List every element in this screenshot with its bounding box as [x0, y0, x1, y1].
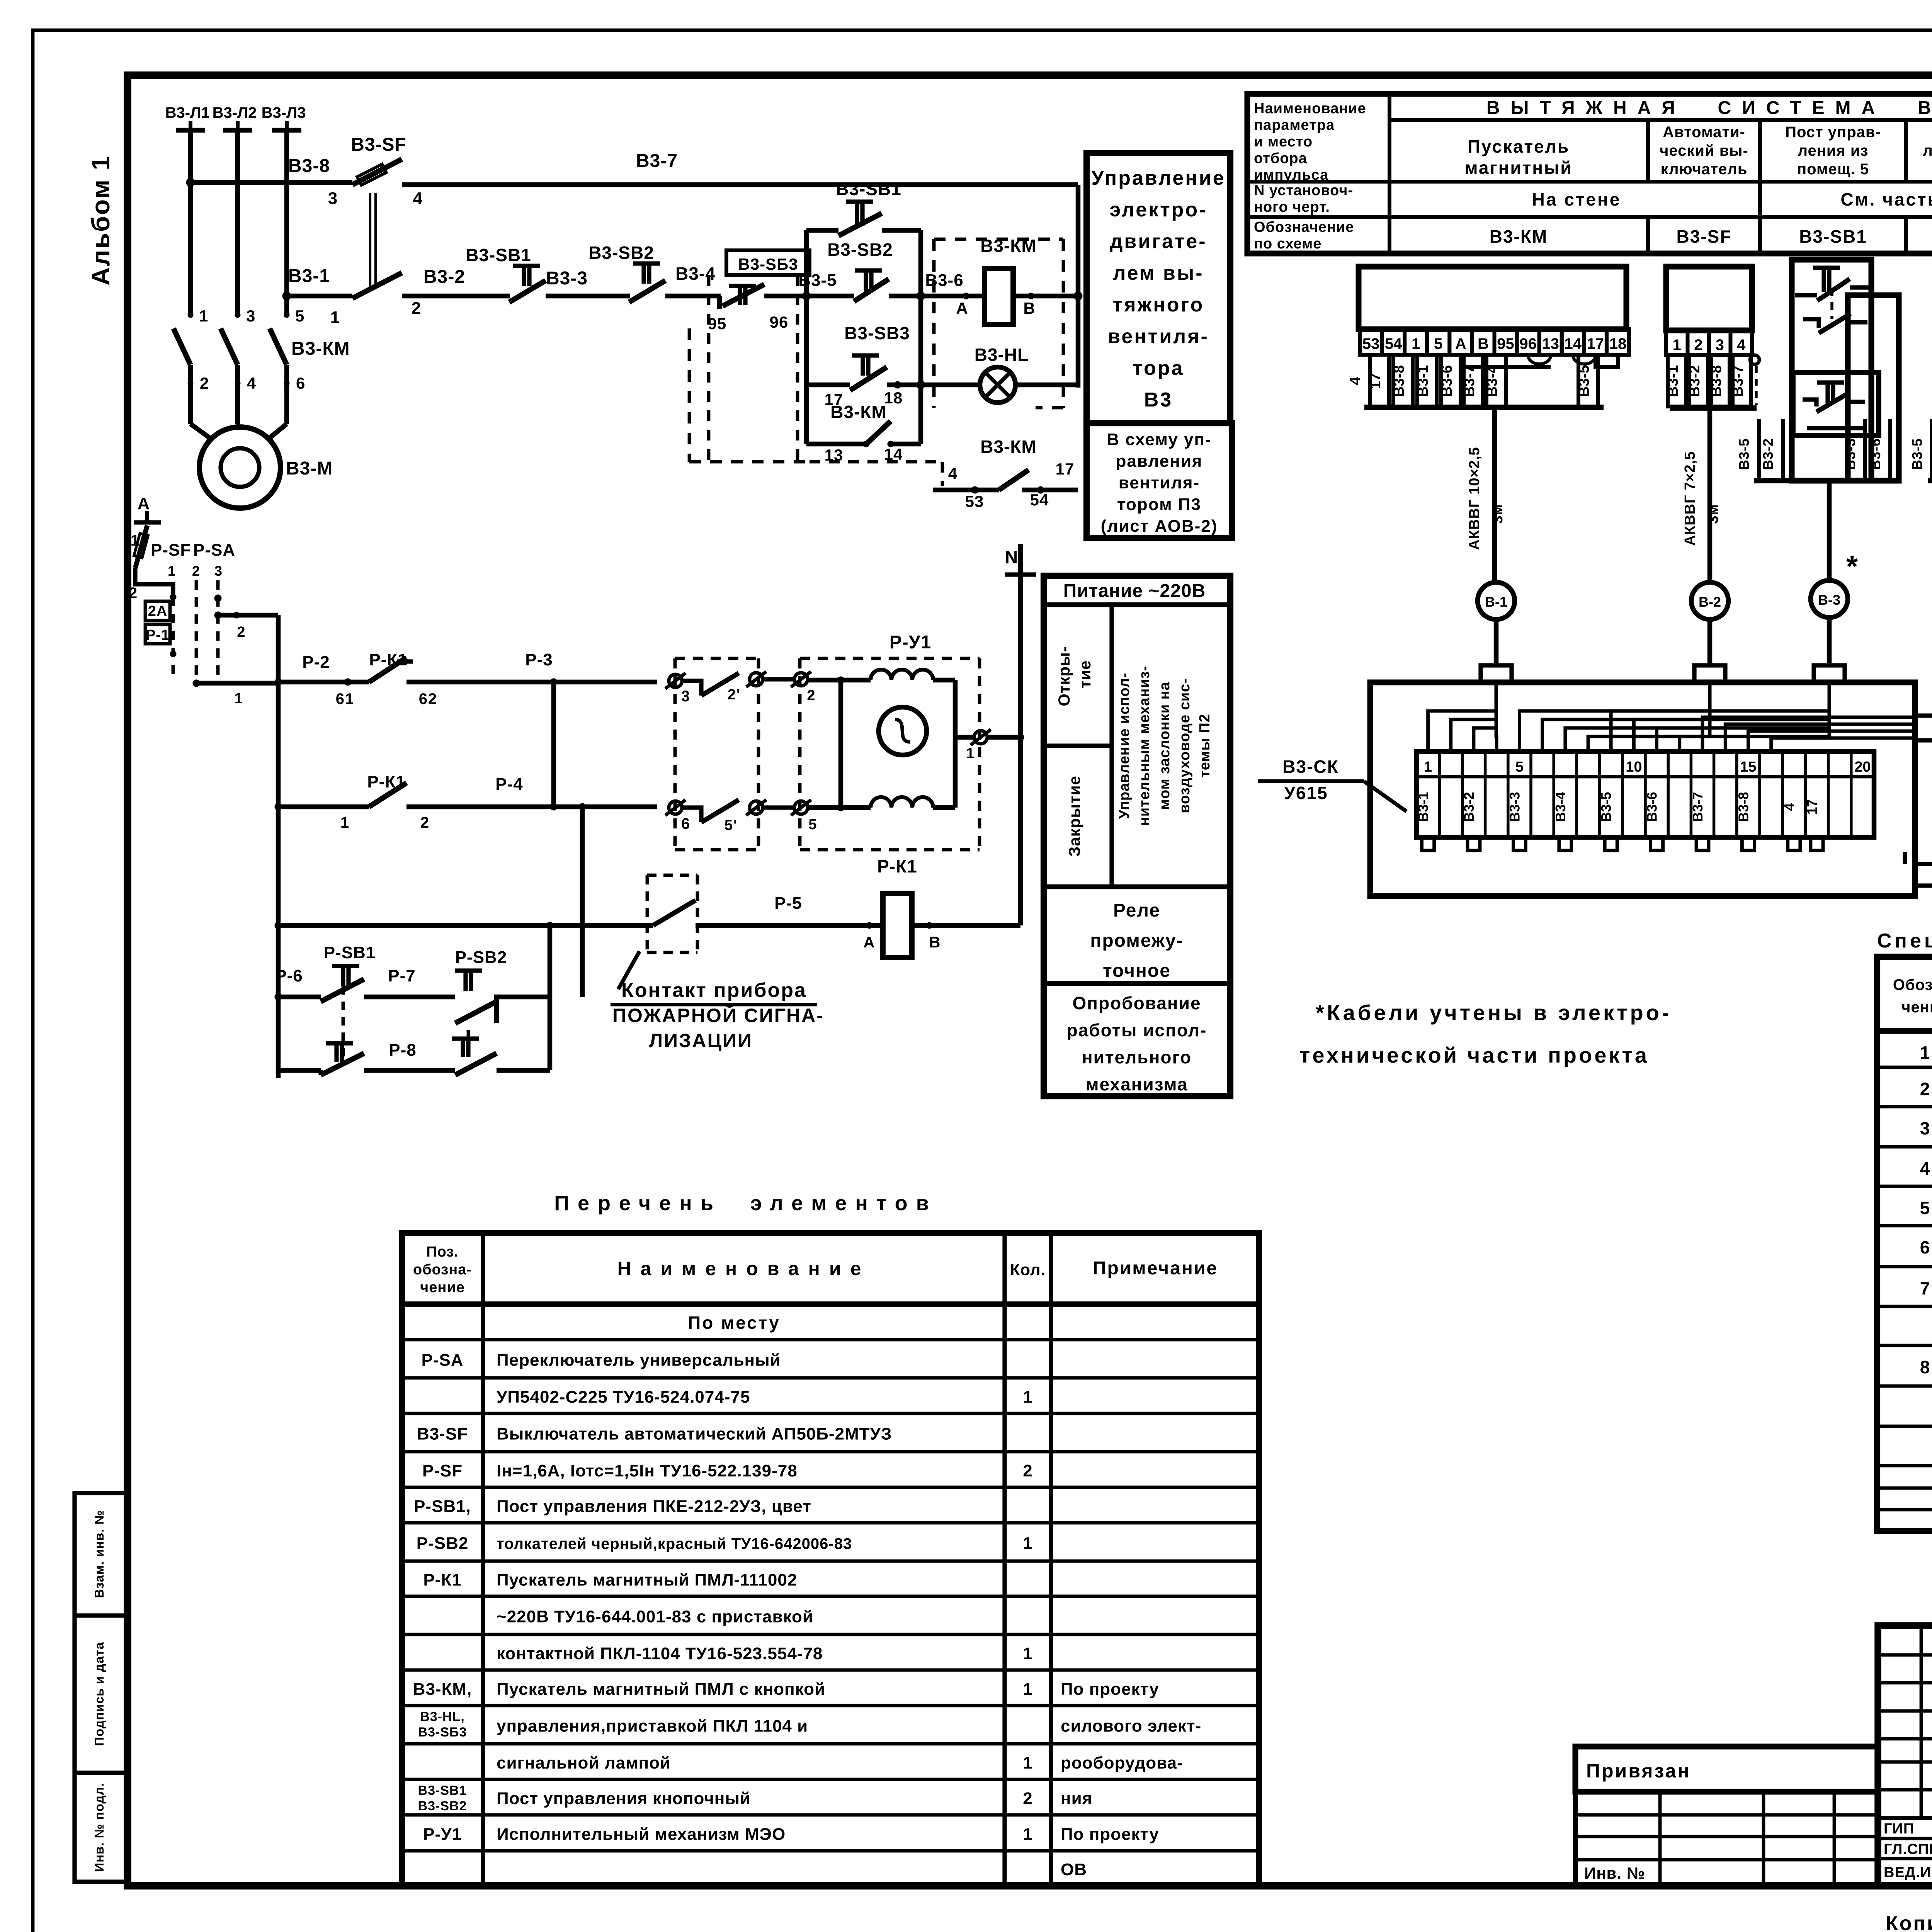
signature rows	[1878, 1816, 1932, 1820]
svg-text:В3-SF: В3-SF	[417, 1425, 468, 1444]
left stamp column	[75, 1493, 126, 1882]
svg-text:чение: чение	[1901, 999, 1932, 1016]
phase wire L1	[188, 130, 193, 315]
wire B3-1	[287, 294, 352, 299]
svg-text:1: 1	[1023, 1534, 1032, 1553]
svg-text:Обозна-: Обозна-	[1893, 976, 1932, 993]
svg-text:Р-SB1,: Р-SB1,	[414, 1497, 471, 1516]
svg-text:В3-8: В3-8	[1735, 792, 1751, 822]
V3-SK bottom outlet to P3-SK1	[1916, 864, 1932, 886]
svg-text:Поз.: Поз.	[426, 1244, 458, 1260]
svg-text:1: 1	[1023, 1680, 1032, 1699]
svg-text:1: 1	[1023, 1644, 1032, 1663]
svg-text:В3-SБ3: В3-SБ3	[418, 1725, 467, 1740]
dashed link of button posts	[688, 328, 691, 462]
left rail of start-stop group	[804, 230, 809, 444]
node junction left rail	[802, 292, 811, 300]
svg-text:4: 4	[1781, 803, 1797, 811]
winding bottom of P-U1	[808, 805, 871, 810]
V3-SK cable entries	[1481, 665, 1512, 682]
cable marker V-2	[1691, 582, 1728, 619]
svg-text:15: 15	[1740, 759, 1756, 775]
row P-5 fire circuit	[278, 923, 653, 928]
terminal 3	[669, 674, 682, 687]
svg-text:6: 6	[1920, 1237, 1930, 1257]
motor B3-M	[190, 424, 213, 440]
svg-text:5: 5	[1920, 1198, 1930, 1218]
vertical tie rows1-2	[551, 682, 556, 807]
inner right rail of start-stop group	[918, 230, 923, 444]
winding top of P-U1	[871, 670, 933, 680]
svg-text:У615: У615	[1284, 783, 1328, 803]
wire B3-7	[402, 182, 1078, 187]
svg-text:В3-6: В3-6	[1644, 792, 1660, 822]
svg-text:17: 17	[1804, 799, 1820, 815]
svg-text:технической части проекта: технической части проекта	[1299, 1043, 1649, 1067]
svg-text:силового элект-: силового элект-	[1061, 1717, 1201, 1736]
wire B3-8	[190, 180, 352, 185]
B3-KM stub wires with labels	[1370, 355, 1389, 406]
row close: wire	[278, 804, 369, 810]
svg-text:В3-2: В3-2	[1461, 792, 1477, 822]
svg-text:Перечень элементов: Перечень элементов	[554, 1192, 937, 1215]
svg-text:Примечание: Примечание	[1093, 1258, 1218, 1279]
svg-text:1: 1	[1424, 759, 1432, 775]
svg-text:ния: ния	[1061, 1789, 1092, 1808]
svg-text:В3-СК: В3-СК	[1282, 757, 1338, 777]
svg-text:4: 4	[1920, 1158, 1930, 1179]
svg-text:2: 2	[1023, 1461, 1032, 1480]
wire B3-3	[553, 294, 630, 299]
breaker B3-SF box	[1666, 267, 1752, 330]
terminal 1 of P-U1	[955, 735, 974, 740]
svg-text:В3-HL,: В3-HL,	[420, 1709, 465, 1724]
wire B3-2	[402, 294, 510, 299]
svg-text:ВЕД.ИНЖ.: ВЕД.ИНЖ.	[1884, 1864, 1932, 1881]
limit switch open contact 3-2'	[682, 681, 701, 696]
svg-text:Пускатель магнитный ПМЛ-111002: Пускатель магнитный ПМЛ-111002	[497, 1571, 797, 1590]
limit switch box of P-U1 (dashed)	[675, 658, 759, 850]
element list grid	[402, 1233, 1259, 1886]
row P-8	[278, 1068, 321, 1073]
svg-text:3: 3	[1920, 1118, 1930, 1138]
button P-SB2 second contact	[452, 1036, 479, 1041]
svg-text:сигнальной лампой: сигнальной лампой	[497, 1753, 671, 1772]
limit switch contact 6-5'	[682, 808, 701, 822]
power supply table 220V	[1044, 576, 1230, 1096]
svg-text:По месту: По месту	[688, 1313, 781, 1333]
cable to V-1	[1492, 407, 1497, 582]
fire alarm contact dashed box	[647, 875, 697, 952]
V3-SK fan wires	[1428, 682, 1496, 752]
svg-text:1: 1	[1920, 1043, 1930, 1063]
svg-text:Р-К1: Р-К1	[423, 1571, 461, 1590]
svg-text:Исполнительный механизм МЭО: Исполнительный механизм МЭО	[497, 1825, 786, 1844]
svg-text:7: 7	[1920, 1278, 1930, 1298]
specification table grid	[1877, 957, 1932, 1531]
svg-text:Копировал Завьялова: Копировал Завьялова	[1886, 1912, 1932, 1932]
svg-text:В3-1: В3-1	[1415, 792, 1431, 822]
svg-text:Iн=1,6А, Iотс=1,5Iн ТУ16-522.1: Iн=1,6А, Iотс=1,5Iн ТУ16-522.139-78	[497, 1461, 798, 1480]
sync motor symbol in P-U1	[879, 707, 927, 755]
wire to row 2	[196, 681, 278, 686]
svg-text:ГЛ.СПЕЦ.: ГЛ.СПЕЦ.	[1884, 1841, 1932, 1857]
svg-text:Инв. №: Инв. №	[1584, 1864, 1645, 1882]
svg-text:Переключатель универсальный: Переключатель универсальный	[497, 1351, 781, 1370]
dashed linkage to interlock	[810, 460, 940, 464]
table extract system B3 header	[1247, 94, 1932, 253]
row open: wire P-2	[278, 680, 369, 685]
magnetic starter B3-KM box	[1359, 267, 1626, 329]
svg-text:Пост управления ПКЕ-212-2УЗ, ц: Пост управления ПКЕ-212-2УЗ, цвет	[497, 1497, 811, 1516]
svg-text:Кол.: Кол.	[1010, 1260, 1046, 1279]
B3-KM bottom bus	[1364, 405, 1604, 410]
svg-text:*Кабели учтены в электро-: *Кабели учтены в электро-	[1316, 1000, 1672, 1025]
circuit breaker B3-SF pole 2	[352, 273, 402, 298]
svg-text:Р-SB2: Р-SB2	[417, 1534, 469, 1553]
left control rail	[276, 615, 281, 1078]
vertical tie row2-row4	[580, 807, 585, 997]
svg-text:ГИП: ГИП	[1884, 1821, 1914, 1837]
svg-text:Спецификация основных монтажны: Спецификация основных монтажных материал…	[1877, 930, 1932, 952]
vertical link in P-U1	[838, 680, 844, 808]
svg-text:1: 1	[1023, 1825, 1032, 1844]
svg-text:рооборудова-: рооборудова-	[1061, 1753, 1183, 1772]
svg-text:~220В ТУ16-644.001-83 с приста: ~220В ТУ16-644.001-83 с приставкой	[497, 1607, 813, 1626]
title block frame	[1878, 1626, 1932, 1886]
svg-text:В3-SB1: В3-SB1	[418, 1783, 467, 1798]
svg-text:Пускатель магнитный ПМЛ с кноп: Пускатель магнитный ПМЛ с кнопкой	[497, 1680, 825, 1699]
phase wire L2	[235, 130, 240, 315]
row P-6 / P-7	[278, 995, 321, 1000]
text box to P3 scheme	[1087, 423, 1232, 538]
cable to V-2	[1708, 408, 1713, 582]
wire into coil top	[808, 678, 871, 683]
svg-text:10: 10	[1626, 759, 1642, 775]
svg-text:Привязан: Привязан	[1586, 1760, 1691, 1782]
junction box V3-SK U615	[1370, 682, 1915, 896]
svg-text:ОВ: ОВ	[1061, 1860, 1087, 1879]
svg-text:В3-SB2: В3-SB2	[418, 1799, 467, 1813]
svg-text:контактной ПКЛ-1104 ТУ16-523.5: контактной ПКЛ-1104 ТУ16-523.554-78	[497, 1644, 823, 1663]
terminal strip V3-SK	[1417, 752, 1874, 837]
svg-text:2: 2	[1920, 1079, 1930, 1099]
right rail to B3-7	[1076, 185, 1081, 388]
control post B3-SB1 box	[1792, 260, 1871, 481]
cable marker V-3	[1811, 580, 1848, 617]
svg-text:По проекту: По проекту	[1061, 1825, 1159, 1844]
terminal 6	[669, 801, 682, 814]
svg-text:В3-4: В3-4	[1553, 792, 1568, 822]
svg-text:В3-5: В3-5	[1598, 792, 1614, 822]
jumpers on B3-KM terminals	[1528, 355, 1551, 364]
svg-text:2: 2	[1023, 1789, 1032, 1808]
svg-text:В3-КМ,: В3-КМ,	[413, 1680, 472, 1699]
svg-text:управления,приставкой ПКЛ 1104: управления,приставкой ПКЛ 1104 и	[497, 1717, 808, 1736]
svg-text:толкателей черный,красный ТУ16: толкателей черный,красный ТУ16-642006-83	[497, 1536, 852, 1553]
svg-text:В3-7: В3-7	[1690, 792, 1706, 822]
svg-text:20: 20	[1854, 759, 1871, 775]
phase wire L3	[284, 130, 289, 315]
svg-text:Р-SF: Р-SF	[422, 1461, 463, 1480]
linked box Privyazan	[1575, 1747, 1878, 1792]
svg-text:Пост управления кнопочный: Пост управления кнопочный	[497, 1789, 751, 1808]
svg-text:чение: чение	[420, 1279, 465, 1296]
svg-text:Наименование: Наименование	[617, 1258, 871, 1279]
svg-text:5: 5	[1515, 759, 1524, 775]
wire tag 2A / P-1	[145, 601, 170, 621]
svg-text:В3-3: В3-3	[1507, 792, 1522, 822]
dashed enclosure of B3-KM	[934, 239, 1063, 408]
small table under Privyazan	[1575, 1792, 1878, 1886]
svg-text:По проекту: По проекту	[1061, 1680, 1159, 1699]
svg-text:1: 1	[1023, 1753, 1032, 1772]
svg-text:Р-У1: Р-У1	[423, 1825, 462, 1844]
text box function B3 fan control	[1087, 153, 1230, 423]
terminal 2	[763, 677, 794, 681]
leader to fire contact note	[618, 951, 639, 989]
cable marker V-1	[1478, 582, 1515, 619]
svg-text:1: 1	[1023, 1388, 1032, 1406]
title block revision grid	[1920, 1626, 1923, 1818]
wire to row 1	[218, 613, 278, 618]
B3-SF bottom bus	[1670, 405, 1757, 411]
svg-text:Р-SA: Р-SA	[421, 1351, 463, 1370]
svg-text:8: 8	[1920, 1357, 1930, 1377]
svg-text:УП5402-С225 ТУ16-524.074-75: УП5402-С225 ТУ16-524.074-75	[497, 1388, 750, 1406]
svg-text:обозна-: обозна-	[413, 1262, 472, 1278]
button P-SB1 second contact	[326, 1041, 353, 1045]
svg-text:Выключатель автоматический АП5: Выключатель автоматический АП50Б-2МТУЗ	[497, 1425, 892, 1444]
contact B3-SB3 NC with box label	[726, 250, 810, 275]
wire B3-4	[672, 294, 721, 299]
terminal 5	[763, 805, 794, 810]
right tie of button rows	[548, 925, 553, 1070]
